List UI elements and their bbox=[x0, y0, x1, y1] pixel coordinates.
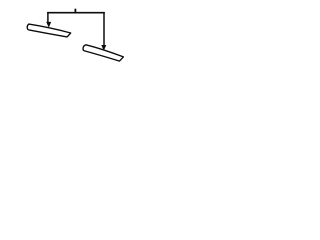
resistor R1 bbox=[27, 24, 71, 37]
wire bbox=[47, 12, 49, 22]
node B bbox=[46, 22, 51, 28]
node C bbox=[101, 45, 106, 51]
wire bbox=[47, 12, 105, 14]
node A bbox=[75, 9, 77, 13]
resistor R2 bbox=[83, 45, 123, 61]
wire bbox=[103, 12, 105, 45]
